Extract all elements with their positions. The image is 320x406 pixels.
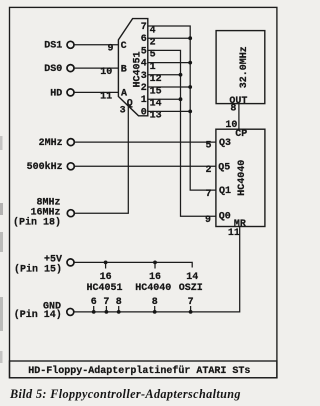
connector GND (Pin 14) [14,302,74,321]
svg-text:DS1: DS1 [44,41,62,52]
oscillator OSZI 32.0MHz [216,31,265,115]
U1 channel 2 wire, pin 15 [141,83,190,97]
svg-text:10: 10 [100,67,112,78]
junction ch2 [188,85,192,89]
wire 500kHz to U2 Q5 pin 2 [75,165,216,167]
connector HD [50,88,118,99]
power rail +5V [74,262,192,267]
GND stub U1 pin 8 [116,297,122,314]
svg-text:1: 1 [150,62,156,73]
+5V stub U1 pin 16 [100,261,112,283]
connector 2MHz [39,138,216,149]
svg-text:500kHz: 500kHz [27,161,63,173]
svg-text:(Pin 18): (Pin 18) [13,217,61,229]
svg-text:0: 0 [141,107,147,118]
wire U1 Q output down [74,105,128,214]
svg-text:7: 7 [205,189,211,200]
svg-text:2MHz: 2MHz [39,138,63,149]
bus wire 16MHz group to U2 Q0 [181,75,216,217]
wire OSZI OUT to U2 CP [238,104,240,130]
GND stub U1 pin 7 [103,297,109,314]
scan smudges left edge [0,136,3,363]
border frame [10,7,277,377]
svg-text:11: 11 [228,228,240,239]
svg-text:HD-Floppy-Adapterplatinefür AT: HD-Floppy-Adapterplatinefür ATARI STs [28,365,250,377]
junction ch1 [179,97,183,101]
GND stub U2 pin 8 [152,297,158,314]
svg-text:Q5: Q5 [218,162,230,173]
wire HD to U1 pin 11 [74,91,118,93]
svg-text:HD: HD [50,88,62,99]
svg-text:13: 13 [150,111,162,122]
U1 channel 3 wire, pin 12 [141,71,181,85]
U1 channel 5 wire, pin 5 [141,46,181,74]
svg-text:HC4040: HC4040 [135,283,171,294]
connector DS1 [44,41,118,52]
svg-text:3: 3 [120,105,126,116]
svg-text:32.0MHz: 32.0MHz [239,46,250,88]
wire DS0 to U1 pin 10 [74,67,118,69]
svg-text:4: 4 [150,25,156,36]
svg-text:9: 9 [107,43,113,54]
GND stub U1 pin 6 [91,297,97,314]
connector DS0 [44,64,118,75]
svg-text:11: 11 [100,91,112,102]
U1 channel 6 wire, pin 2 [141,34,190,48]
svg-text:14: 14 [186,272,198,283]
svg-text:9: 9 [205,215,211,226]
svg-text:8: 8 [230,104,236,115]
svg-text:4: 4 [141,59,147,70]
svg-text:5: 5 [150,50,156,61]
svg-text:14: 14 [150,99,162,110]
svg-text:(Pin 15): (Pin 15) [14,263,62,275]
junction ch4 [188,61,192,65]
svg-text:Q1: Q1 [219,186,231,197]
title box [10,361,277,378]
svg-text:OSZI: OSZI [179,283,203,294]
svg-text:2: 2 [205,165,211,176]
junction ch6 [188,36,192,40]
svg-text:(Pin 14): (Pin 14) [14,309,62,321]
svg-text:2: 2 [150,38,156,49]
svg-text:HC4040: HC4040 [237,160,248,196]
connector 8MHz/16MHz (Pin 18) [13,197,74,228]
svg-text:1: 1 [141,95,147,106]
+5V stub U2 pin 16 [149,261,161,283]
bus wire 8MHz group to U2 Q1 [190,38,216,190]
svg-text:B: B [121,64,127,75]
connector +5V (Pin 15) [14,254,74,275]
svg-text:Bild 5: Floppycontroller-Adapt: Bild 5: Floppycontroller-Adapterschaltun… [9,387,241,401]
svg-text:16: 16 [149,272,161,283]
svg-text:7: 7 [141,22,147,33]
svg-text:HC4051: HC4051 [86,283,122,294]
junction ch3 [179,73,183,77]
svg-text:C: C [121,41,127,52]
svg-text:6: 6 [141,34,147,45]
wire U2 MR down to ground rail [74,227,240,312]
U1 channel 0 wire, pin 13 [141,107,190,121]
svg-text:Q3: Q3 [219,138,231,149]
svg-text:12: 12 [150,74,162,85]
counter U2 HC4040 body [216,129,265,226]
svg-text:Q0: Q0 [219,211,231,222]
U1 channel 1 wire, pin 14 [141,95,181,109]
U1 channel 7 wire, pin 4 [141,22,190,38]
svg-text:3: 3 [141,71,147,82]
svg-text:16: 16 [100,272,112,283]
svg-text:DS0: DS0 [44,64,62,75]
svg-text:5: 5 [205,141,211,152]
wire 2MHz to U2 Q3 pin 5 [75,141,216,143]
junction ch0 [188,110,192,114]
GND stub OSZI pin 7 [188,297,194,314]
wire DS1 to U1 pin 9 [74,44,118,46]
svg-text:2: 2 [141,83,147,94]
U1 channel 4 wire, pin 1 [141,59,190,73]
mux U1 HC4051 body [118,19,147,116]
connector 500kHz [27,161,216,173]
svg-text:10: 10 [225,120,237,131]
svg-text:15: 15 [150,86,162,97]
svg-text:5: 5 [141,46,147,57]
